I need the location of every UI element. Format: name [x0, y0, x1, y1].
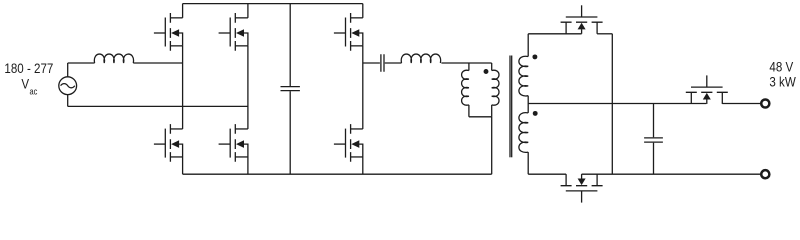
svg-text:V: V: [21, 75, 29, 91]
svg-text:3 kW: 3 kW: [769, 73, 796, 89]
svg-text:ac: ac: [30, 87, 38, 97]
svg-text:180 - 277: 180 - 277: [4, 60, 53, 76]
svg-text:48 V: 48 V: [769, 58, 793, 74]
